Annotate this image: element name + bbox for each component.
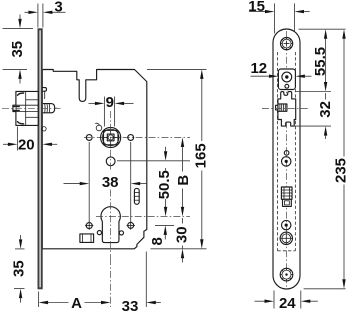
euro profile cylinder — [101, 207, 120, 243]
ribbed capsule near right edge — [134, 188, 139, 204]
extension lines right side — [299, 28, 346, 30]
small stud on case edge — [42, 127, 46, 131]
dim 20 (latch protrusion) — [16, 127, 18, 151]
follower hub — [101, 127, 121, 147]
dim 12 — [251, 75, 269, 77]
extension line hole below follower — [117, 160, 190, 162]
vertical centerline through follower/cylinder — [110, 111, 112, 172]
dim 32 — [325, 93, 327, 100]
svg-text:38: 38 — [102, 174, 119, 191]
dim 9 (follower square) — [103, 97, 105, 127]
dim 38 (screw distance) — [88, 142, 90, 223]
svg-text:20: 20 — [18, 137, 35, 154]
svg-text:8: 8 — [149, 237, 166, 245]
dim 15 — [249, 11, 266, 13]
extension line case bottom to right — [151, 248, 207, 250]
slider block bottom left — [80, 234, 94, 243]
svg-text:3: 3 — [54, 0, 62, 16]
latch bolt tip face — [13, 105, 16, 111]
hole below follower — [106, 157, 115, 166]
extension line case top to right — [147, 68, 207, 70]
latch bolt axis centerline — [2, 107, 62, 109]
dim 35 top — [3, 27, 33, 29]
ribbed block — [281, 187, 292, 199]
top fixing screw (phillips) — [281, 38, 293, 50]
latch keeper piece — [278, 92, 296, 127]
latch axis centerline — [262, 108, 310, 110]
dim 235 — [342, 29, 345, 39]
dim 33 (case depth behind axis) — [145, 252, 147, 308]
spring clip at follower — [96, 125, 102, 131]
svg-text:165: 165 — [192, 143, 209, 168]
follower square hole — [107, 134, 114, 141]
svg-text:33: 33 — [122, 298, 139, 313]
dim 3 (faceplate thickness) — [37, 4, 39, 28]
svg-text:9: 9 — [106, 94, 114, 111]
svg-text:50.5: 50.5 — [156, 170, 173, 199]
svg-text:55.5: 55.5 — [312, 47, 329, 76]
svg-text:235: 235 — [333, 158, 350, 183]
small hole — [284, 151, 289, 156]
dim 24 — [273, 291, 275, 309]
svg-text:12: 12 — [250, 60, 267, 77]
screw post left of follower — [86, 135, 92, 141]
faceplate (edge-on, grey strip) — [39, 29, 42, 288]
latch bolt head — [16, 91, 38, 125]
latch guide lug on case edge — [42, 88, 46, 92]
cylinder horizontal centerline — [96, 215, 190, 217]
svg-text:35: 35 — [10, 260, 27, 277]
svg-text:30: 30 — [174, 226, 191, 243]
ring hole lower — [282, 220, 291, 229]
svg-text:15: 15 — [248, 0, 265, 15]
plate centerline — [285, 31, 287, 289]
bottom fixing screw (star) — [280, 268, 293, 281]
screw post right of follower — [128, 135, 134, 141]
horizontal centerline through follower — [84, 137, 190, 139]
adjustable screw box — [278, 69, 295, 90]
lock case outline — [42, 70, 147, 249]
small hole right — [119, 231, 123, 235]
faceplate outline (front) — [273, 29, 300, 289]
svg-text:B: B — [175, 175, 192, 186]
dim 50.5 / 8 chain — [164, 151, 167, 161]
latch spring (ribbed) behind faceplate — [43, 104, 55, 113]
svg-text:24: 24 — [279, 295, 296, 312]
phillips screw lower — [280, 232, 292, 244]
keeper clip — [278, 104, 287, 111]
fixing screw right (cross) — [128, 222, 134, 228]
extension line fixing screws row — [155, 224, 174, 226]
ring hole — [282, 157, 291, 166]
dashed mortise outline — [277, 52, 279, 251]
dim B — [181, 138, 184, 148]
extension lines for dim 15 — [274, 3, 276, 33]
dim 35 bottom (faceplate below case) — [15, 248, 25, 250]
dim 165 — [200, 69, 203, 79]
svg-text:32: 32 — [317, 101, 334, 118]
dim 30 — [181, 249, 184, 258]
dim A (backset) — [38, 292, 40, 308]
svg-text:A: A — [71, 295, 82, 312]
dim 55.5 — [324, 29, 327, 39]
fixing screw left (cross) — [86, 223, 92, 229]
svg-text:35: 35 — [9, 41, 26, 58]
small hole left — [97, 231, 101, 235]
